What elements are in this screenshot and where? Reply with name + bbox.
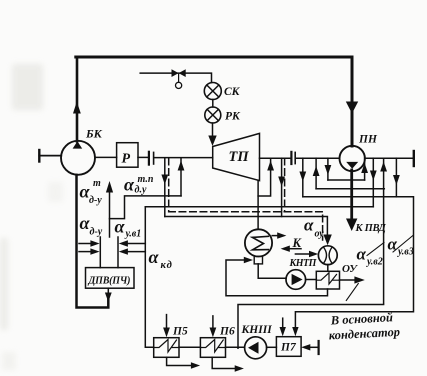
wire: right end tick [413, 151, 415, 166]
svg-text:КНТП: КНТП [289, 258, 318, 269]
Σ symbol [252, 236, 268, 250]
wire: left end tick of boiler stub [38, 150, 40, 162]
arrow: up on x364.6 [361, 163, 368, 173]
wire: Р to coupling [138, 156, 148, 158]
arrow: steam into П5 [166, 315, 168, 330]
svg-text:у.в1: у.в1 [125, 229, 142, 240]
svg-text:К: К [292, 236, 303, 250]
deaerator ДПВ(ПЧ) neck [100, 237, 118, 268]
wire: feedwater U back to БК (thick) [77, 175, 109, 308]
П6 heat exchange zigzag [200, 340, 225, 353]
svg-text:ПН: ПН [358, 134, 378, 146]
wire: СК to РК [212, 100, 214, 108]
valve СК (stop valve) [204, 83, 221, 100]
svg-text:α: α [124, 175, 135, 195]
wire: α_д.у^т.п line with step to deaerator [110, 196, 182, 219]
valve stem [178, 73, 180, 82]
turbine ТП [213, 133, 260, 180]
arrow: Σ heater out to К [272, 235, 279, 237]
wire: ejector to ОУ cooler [327, 265, 329, 272]
heater П5 [154, 338, 179, 358]
valve handwheel circle [176, 82, 182, 88]
svg-text:α: α [388, 235, 398, 254]
deaerator ДПВ(ПЧ) body [86, 268, 135, 289]
arrow: outlet arrowhead [105, 293, 112, 303]
arrow: down on x281.6 [278, 177, 285, 187]
wire: α_кд drop to П5 row [145, 207, 153, 347]
svg-text:Р: Р [122, 152, 131, 167]
wire: РК to turbine with arrow [212, 123, 214, 138]
wire: dashed seal-steam line down (x168.7) [168, 158, 170, 212]
arrow: down on v1 [161, 175, 168, 185]
П5 heat exchange zigzag [154, 340, 179, 353]
wire: extraction v1 under shaft (x164.8) [164, 158, 166, 216]
arrow: into deaerator neck (lower right) [125, 251, 145, 253]
wire: ОУ condensate return to Σ neck [226, 260, 328, 296]
callout: α_у.в3 pointer [393, 236, 413, 252]
wire: row line П6-КНIII [226, 346, 245, 348]
arrow: into П7 from stub [301, 344, 310, 350]
wire: extraction under shaft right of turbine (x270.6) [258, 158, 271, 196]
arrow: ОУ outlet to main condenser [340, 279, 357, 281]
wire: boiler left stub [39, 155, 61, 157]
wire: v down to h2 (x327.9) [327, 158, 329, 180]
wire: drain bus from x383.6 down to КНIII suction [238, 305, 384, 349]
svg-text:т: т [93, 178, 101, 189]
wire: ПН to right end [365, 157, 414, 159]
ОУ zigzag [316, 273, 339, 284]
svg-text:ОУ: ОУ [342, 263, 358, 275]
svg-text:ТП: ТП [229, 149, 250, 165]
svg-text:конденсатор: конденсатор [328, 325, 400, 343]
arrow: up on x270.6 [267, 161, 274, 171]
wire: channel bottom line to ejector elbow [165, 217, 328, 235]
wire: П7 right stub [308, 346, 319, 348]
arrow: steam into П7 (left) [282, 318, 284, 329]
svg-text:д-у: д-у [90, 227, 103, 238]
wire: deaerator vent up (α_д.у^т) [109, 190, 111, 237]
svg-text:КНIII: КНIII [241, 324, 273, 336]
wire: deaerator steam line up into shaft (x181) [180, 158, 182, 196]
Σ heater neck [254, 256, 262, 264]
svg-text:α: α [149, 247, 160, 267]
arrow: into П7 right feed [292, 327, 298, 336]
wire: v up-arrow right of ПН (x364.6) [364, 158, 366, 180]
wire: top main pipe (thick) [76, 56, 352, 59]
wire: shaft line to turbine [155, 157, 213, 159]
Σ heater (sealing steam heater) [245, 229, 272, 256]
wire: v down to h4 (x396.4) [395, 158, 397, 197]
svg-text:РК: РК [225, 111, 241, 123]
arrow: flow into riser inside БК top [73, 141, 83, 148]
wire: bus h4 to П7 drop [295, 197, 413, 328]
wire: long v to drain bus (x383.6) [383, 158, 385, 303]
wire: ПН downcomer (thick) [351, 57, 354, 146]
arrow: down on x396.4 [393, 175, 400, 185]
arrow: БК water into deaerator neck (upper) [79, 243, 93, 245]
svg-text:оу: оу [315, 229, 325, 240]
svg-text:α: α [115, 217, 126, 237]
svg-text:П5: П5 [172, 326, 188, 338]
svg-text:кд: кд [161, 260, 173, 271]
svg-text:П6: П6 [219, 326, 235, 338]
wire: shaft to ПН [296, 157, 340, 159]
condensate pump КНIII [245, 337, 267, 359]
wire: v down to h4 (x302.8) [302, 158, 304, 197]
wire: П6 drain cascade [212, 357, 236, 368]
svg-text:т.п: т.п [138, 174, 154, 185]
arrow: up on x316.1 [313, 166, 320, 176]
svg-text:ДПВ(ПЧ): ДПВ(ПЧ) [88, 276, 131, 287]
wire: row line П5-П6 [179, 346, 200, 348]
coupling turbine/ПН [290, 152, 292, 164]
heater П7 [276, 337, 301, 357]
arrow: steam into П6 [212, 316, 214, 330]
arrow: up on x383.6 [380, 162, 387, 172]
arrow: into ejector from left [295, 253, 311, 255]
wire: deaerator outlet down [107, 288, 109, 294]
wire: П5 drain cascade [167, 357, 192, 365]
boiler БК circle [61, 141, 95, 175]
steam ejector (α_оу) [318, 246, 337, 265]
wire: v up-arrow to h3 (x316.1) [315, 158, 317, 189]
svg-text:д-у: д-у [89, 195, 102, 206]
svg-text:α: α [304, 216, 314, 235]
feed pump ПН [340, 146, 365, 171]
wire: stub end tick [318, 341, 320, 354]
arrow: α_оу arrowhead into ejector [323, 235, 331, 246]
valve РК (control valve) [205, 107, 221, 123]
wire: Σ neck bottom to КНТП pump [258, 264, 286, 278]
wire: dashed middle line of channel [169, 212, 323, 240]
svg-text:у.в2: у.в2 [366, 257, 383, 268]
arrow: down on x327.9 [325, 165, 332, 175]
callout line: в основной конденсатор [346, 284, 358, 301]
wire: bypass line to СК [140, 73, 211, 83]
wire: bus h2 [328, 179, 365, 181]
arrow: α_у.в1 into deaerator neck (upper right) [125, 243, 145, 245]
svg-text:К ПВД: К ПВД [355, 223, 387, 234]
wire: КНIII to П7 [267, 346, 277, 348]
arrow: up arrow on riser [73, 102, 81, 114]
wire: dashed line down (x284.6) [284, 158, 286, 212]
arrow: К ПВД arrowhead [346, 219, 357, 232]
wire: v down to α_кд line (x373.3) [372, 158, 374, 207]
wire: Р box feed from БК [95, 156, 117, 158]
arrow: down on x302.8 [299, 172, 306, 182]
condensate pump КНТП [286, 270, 306, 290]
wire: К ПВД pipe from ПН (thick) [350, 170, 353, 220]
wire: БК riser (thick) [76, 57, 79, 142]
gland steam cooler ОУ [316, 271, 339, 289]
svg-text:у.в3: у.в3 [397, 247, 414, 258]
svg-text:д.у: д.у [135, 185, 147, 196]
coupling between Р and turbine shaft [148, 152, 150, 165]
svg-text:БК: БК [85, 127, 103, 141]
arrow: from К into Σ heater [288, 248, 301, 250]
arrow: vent arrowhead [106, 181, 113, 193]
arrow: into Σ neck left [244, 257, 253, 263]
wire: bus h3 [316, 188, 384, 190]
wire: turbine to ПН shaft line [260, 157, 291, 159]
regulator box Р [117, 143, 138, 168]
wire: turbine exhaust down to Σ heater [257, 181, 259, 230]
arrow: up on x181 [178, 161, 185, 171]
wire: extraction v (x281.6) to channel [281, 158, 283, 216]
svg-text:α: α [357, 245, 367, 264]
callout: α_у.в2 pointer [367, 243, 384, 256]
heater П6 [200, 338, 225, 358]
svg-text:П7: П7 [280, 342, 297, 354]
wire: КНТП pump to ОУ [306, 279, 317, 281]
arrow: down arrow on downcomer [346, 102, 358, 114]
valve (bowtie) on bypass [172, 69, 186, 77]
arrow: down on x373.3 [370, 171, 377, 181]
svg-text:СК: СК [224, 86, 241, 98]
arrow: БК water into deaerator neck (lower) [79, 251, 93, 253]
wire: α_кд long line [145, 206, 373, 208]
